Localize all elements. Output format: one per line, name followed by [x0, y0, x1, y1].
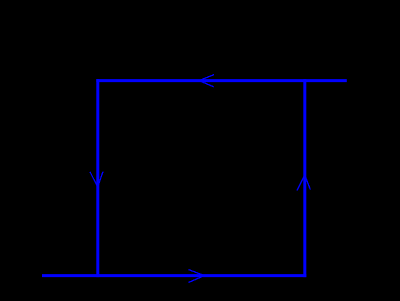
arrow up-pointing on right wire — [297, 175, 310, 191]
arrow left-pointing on top wire — [199, 75, 214, 87]
arrow right-pointing on bottom wire — [188, 270, 204, 283]
arrow down-pointing on left wire — [90, 172, 103, 187]
wire top (horizontal segment with right tail) — [96, 79, 346, 82]
wire left (vertical segment) — [96, 79, 99, 277]
wire bottom (horizontal segment with left tail) — [42, 274, 306, 277]
wire right (vertical segment) — [303, 79, 306, 277]
